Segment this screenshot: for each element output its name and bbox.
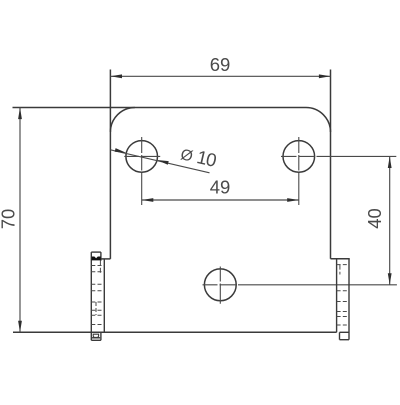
plate top-right corner arc [306, 108, 331, 133]
dim 70 line [19, 108, 21, 333]
dim 70 top arrow [18, 108, 22, 120]
right rail hidden dash y301 [337, 301, 349, 303]
dim 49 right arrow [287, 198, 299, 202]
svg-text:69: 69 [210, 54, 231, 75]
right rail right edge [348, 259, 350, 340]
dim 69 left arrow [110, 74, 122, 78]
plate right edge (with upper extension for dim 69) [330, 70, 332, 259]
plate left step to rail [101, 258, 111, 260]
svg-text:40: 40 [364, 208, 385, 229]
left rail cap right edge [100, 252, 102, 261]
dim 49 left arrow [142, 198, 154, 202]
left rail hidden dash y324 [91, 324, 104, 326]
svg-text:49: 49 [210, 177, 231, 198]
right rail left edge [336, 259, 338, 333]
right rail hidden dash y311 [337, 311, 349, 313]
left rail bottom cap notch [93, 334, 98, 337]
left rail hidden dash y272 [91, 271, 104, 273]
left rail hidden dash y315 [91, 314, 104, 316]
dim 69 right arrow [319, 74, 331, 78]
left rail hidden dash y310 [91, 309, 104, 311]
left rail bottom cap bottom [91, 339, 101, 341]
leader arrow on H1 right edge [157, 160, 169, 165]
plate left edge (with upper extension for dim 69) [109, 70, 111, 259]
hole H2 top-right [283, 141, 315, 173]
left rail left edge [90, 252, 92, 340]
left rail hidden dash y302 [91, 301, 104, 303]
centerline H1 vertical (extends down as dim-49 extension) [141, 137, 143, 205]
left rail body right edge [103, 259, 105, 332]
dim 40 bottom arrow [388, 273, 392, 285]
left rail black clip band [92, 257, 101, 261]
left rail hidden vertical block [95, 302, 97, 315]
hole H3 bottom-center [204, 269, 236, 301]
plate top-left corner arc [110, 108, 134, 133]
right rail bottom cap top line [340, 331, 350, 333]
right rail hidden dash y290 [337, 290, 349, 292]
centerline H2 horizontal (extends right as dim-40 extension) [281, 155, 396, 157]
plate right step to rail [331, 258, 350, 260]
plate bottom edge (with left extension for dim 70) [13, 331, 337, 333]
centerline H3 vertical [219, 267, 221, 304]
dim 40 line [389, 156, 391, 284]
svg-text:70: 70 [0, 209, 19, 230]
right rail hidden vertical x340 [339, 265, 341, 275]
left rail hidden vertical x100 [99, 261, 101, 275]
dim 69 line [110, 75, 330, 77]
right rail bottom cap left edge [339, 332, 341, 339]
centerline H2 vertical (extends down as dim-49 extension) [298, 137, 300, 205]
centerline H3 horizontal (extends right as dim-40 extension) [203, 284, 397, 286]
dim 49 line [142, 199, 299, 201]
right rail hidden dash y325 [337, 324, 349, 326]
left rail top cap line [91, 251, 101, 253]
hole H1 top-left [126, 141, 158, 173]
dim 40 top arrow [388, 156, 392, 168]
right rail bottom cap bottom [340, 339, 350, 341]
plate top edge (with left extension for dim 70) [13, 107, 307, 109]
left rail hidden dash y265 [91, 265, 104, 267]
right rail hidden dash y264 [337, 264, 349, 266]
left rail bottom cap inner line [92, 337, 100, 339]
left rail bottom cap right edge [100, 332, 102, 340]
dim 70 bottom arrow [18, 321, 22, 333]
left rail hidden dash y284 [91, 283, 104, 285]
right rail hidden dash y316 [337, 316, 349, 318]
leader line for diameter 10 [110, 150, 209, 173]
leader arrow on H1 left edge [115, 148, 127, 153]
centerline H1 horizontal [124, 155, 160, 157]
left rail hidden dash y290 [91, 290, 104, 292]
